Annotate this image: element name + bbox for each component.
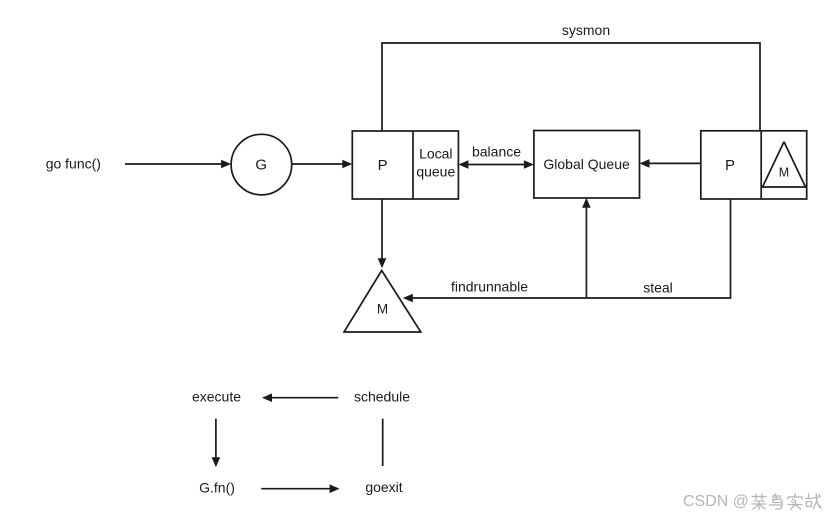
svg-text:Global Queue: Global Queue — [543, 156, 630, 172]
svg-text:findrunnable: findrunnable — [451, 279, 528, 295]
svg-text:G: G — [255, 157, 267, 174]
svg-text:P: P — [725, 157, 735, 174]
svg-text:Local: Local — [419, 146, 452, 162]
svg-text:steal: steal — [643, 280, 673, 296]
svg-text:CSDN @: CSDN @ — [683, 493, 749, 510]
svg-text:G.fn(): G.fn() — [199, 480, 235, 496]
svg-text:queue: queue — [416, 164, 455, 180]
svg-text:P: P — [378, 157, 388, 174]
svg-text:go func(): go func() — [46, 156, 101, 172]
svg-text:M: M — [779, 166, 789, 180]
svg-text:goexit: goexit — [365, 479, 402, 495]
svg-text:balance: balance — [472, 144, 521, 160]
svg-text:sysmon: sysmon — [562, 22, 610, 38]
svg-text:M: M — [377, 302, 388, 317]
svg-text:schedule: schedule — [354, 389, 410, 405]
svg-text:execute: execute — [192, 389, 241, 405]
